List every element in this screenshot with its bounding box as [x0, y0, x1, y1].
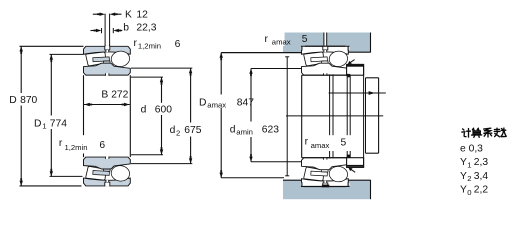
- end box: [366, 77, 379, 79]
- svg-text:b: b: [123, 23, 129, 34]
- Da face line: [286, 57, 288, 176]
- square corners of mounted bearing box (top section): [301, 45, 305, 50]
- svg-text:2: 2: [467, 174, 471, 183]
- xi: [483, 128, 491, 137]
- svg-text:1,2min: 1,2min: [138, 42, 161, 51]
- suan: [472, 128, 482, 137]
- b 22,3 dimension: [91, 30, 97, 32]
- oil hole through housing: [324, 33, 326, 47]
- svg-text:amax: amax: [272, 38, 291, 47]
- svg-text:2,3: 2,3: [474, 157, 489, 168]
- svg-text:2,2: 2,2: [474, 185, 489, 196]
- svg-text:1,2min: 1,2min: [65, 143, 88, 152]
- svg-text:D: D: [199, 97, 206, 108]
- centerline: [286, 115, 383, 117]
- square corners of mounted bearing box (bottom section): [301, 183, 305, 187]
- svg-text:272: 272: [111, 89, 128, 100]
- bearing cross-section upper half: [84, 46, 131, 76]
- svg-text:1: 1: [467, 160, 471, 169]
- svg-text:D: D: [9, 95, 16, 106]
- svg-text:6: 6: [175, 39, 181, 50]
- svg-text:600: 600: [155, 105, 172, 116]
- bearing sections (no blue): [302, 46, 349, 76]
- D extension lines: [20, 45, 84, 47]
- collar bottom: [347, 158, 364, 168]
- side face lines of bearing (B extension lines): [83, 75, 85, 157]
- svg-text:d: d: [170, 125, 176, 136]
- svg-text:amax: amax: [311, 141, 330, 150]
- svg-text:2: 2: [176, 129, 180, 138]
- svg-text:amin: amin: [236, 127, 253, 136]
- svg-text:r: r: [59, 138, 63, 149]
- K 12 dimension: [104, 14, 106, 47]
- svg-text:r: r: [305, 137, 309, 148]
- svg-text:22,3: 22,3: [136, 23, 156, 34]
- svg-text:12: 12: [136, 10, 148, 21]
- r 1,2min 6 (lower): [57, 135, 107, 153]
- svg-text:D: D: [34, 118, 41, 129]
- d 600 dimension: [131, 76, 163, 78]
- d2 675 dimension: [131, 67, 192, 69]
- svg-text:amax: amax: [207, 100, 226, 109]
- oil groove notch (lower right section): [322, 185, 329, 188]
- svg-text:Y: Y: [460, 157, 467, 168]
- svg-text:r: r: [265, 34, 269, 45]
- svg-text:623: 623: [262, 124, 279, 135]
- r_a fillet arrows: [349, 60, 354, 64]
- svg-text:r: r: [134, 38, 138, 49]
- housing upper: [283, 33, 371, 53]
- svg-text:0: 0: [467, 188, 471, 197]
- svg-text:5: 5: [341, 137, 347, 148]
- shu: [494, 128, 506, 137]
- svg-text:3,4: 3,4: [474, 171, 489, 182]
- svg-text:d: d: [141, 105, 147, 116]
- collar/shaft step verticals: [363, 65, 365, 168]
- svg-text:Y: Y: [460, 185, 467, 196]
- svg-text:e 0,3: e 0,3: [460, 144, 483, 155]
- damin 623 dimension: [250, 69, 252, 122]
- svg-text:1: 1: [42, 122, 46, 131]
- svg-text:6: 6: [99, 140, 105, 151]
- svg-text:847: 847: [237, 97, 254, 108]
- ji: [462, 129, 471, 138]
- bearing side / collar edge pair: [346, 75, 348, 158]
- shaft lines: [301, 75, 303, 158]
- oil injection arrow: [329, 92, 386, 94]
- bearing cross-section lower half: [84, 156, 131, 186]
- svg-text:5: 5: [302, 34, 308, 45]
- B 272 dimension: [84, 104, 130, 106]
- r_amax 5 (upper label): [263, 32, 285, 47]
- svg-text:Y: Y: [460, 171, 467, 182]
- svg-text:774: 774: [50, 118, 67, 129]
- D1 774 dimension line: [50, 54, 52, 115]
- svg-text:B: B: [101, 89, 108, 100]
- oil duct pair 1: [329, 74, 331, 158]
- svg-text:K: K: [125, 10, 132, 21]
- collar top: [347, 64, 364, 75]
- r_amax 5 (lower label): [303, 135, 353, 151]
- Damax 847 dimension: [220, 53, 222, 95]
- D 870 dimension line: [20, 46, 22, 93]
- svg-text:d: d: [230, 124, 236, 135]
- svg-text:870: 870: [20, 95, 37, 106]
- svg-text:675: 675: [184, 125, 201, 136]
- housing lower: [283, 180, 371, 199]
